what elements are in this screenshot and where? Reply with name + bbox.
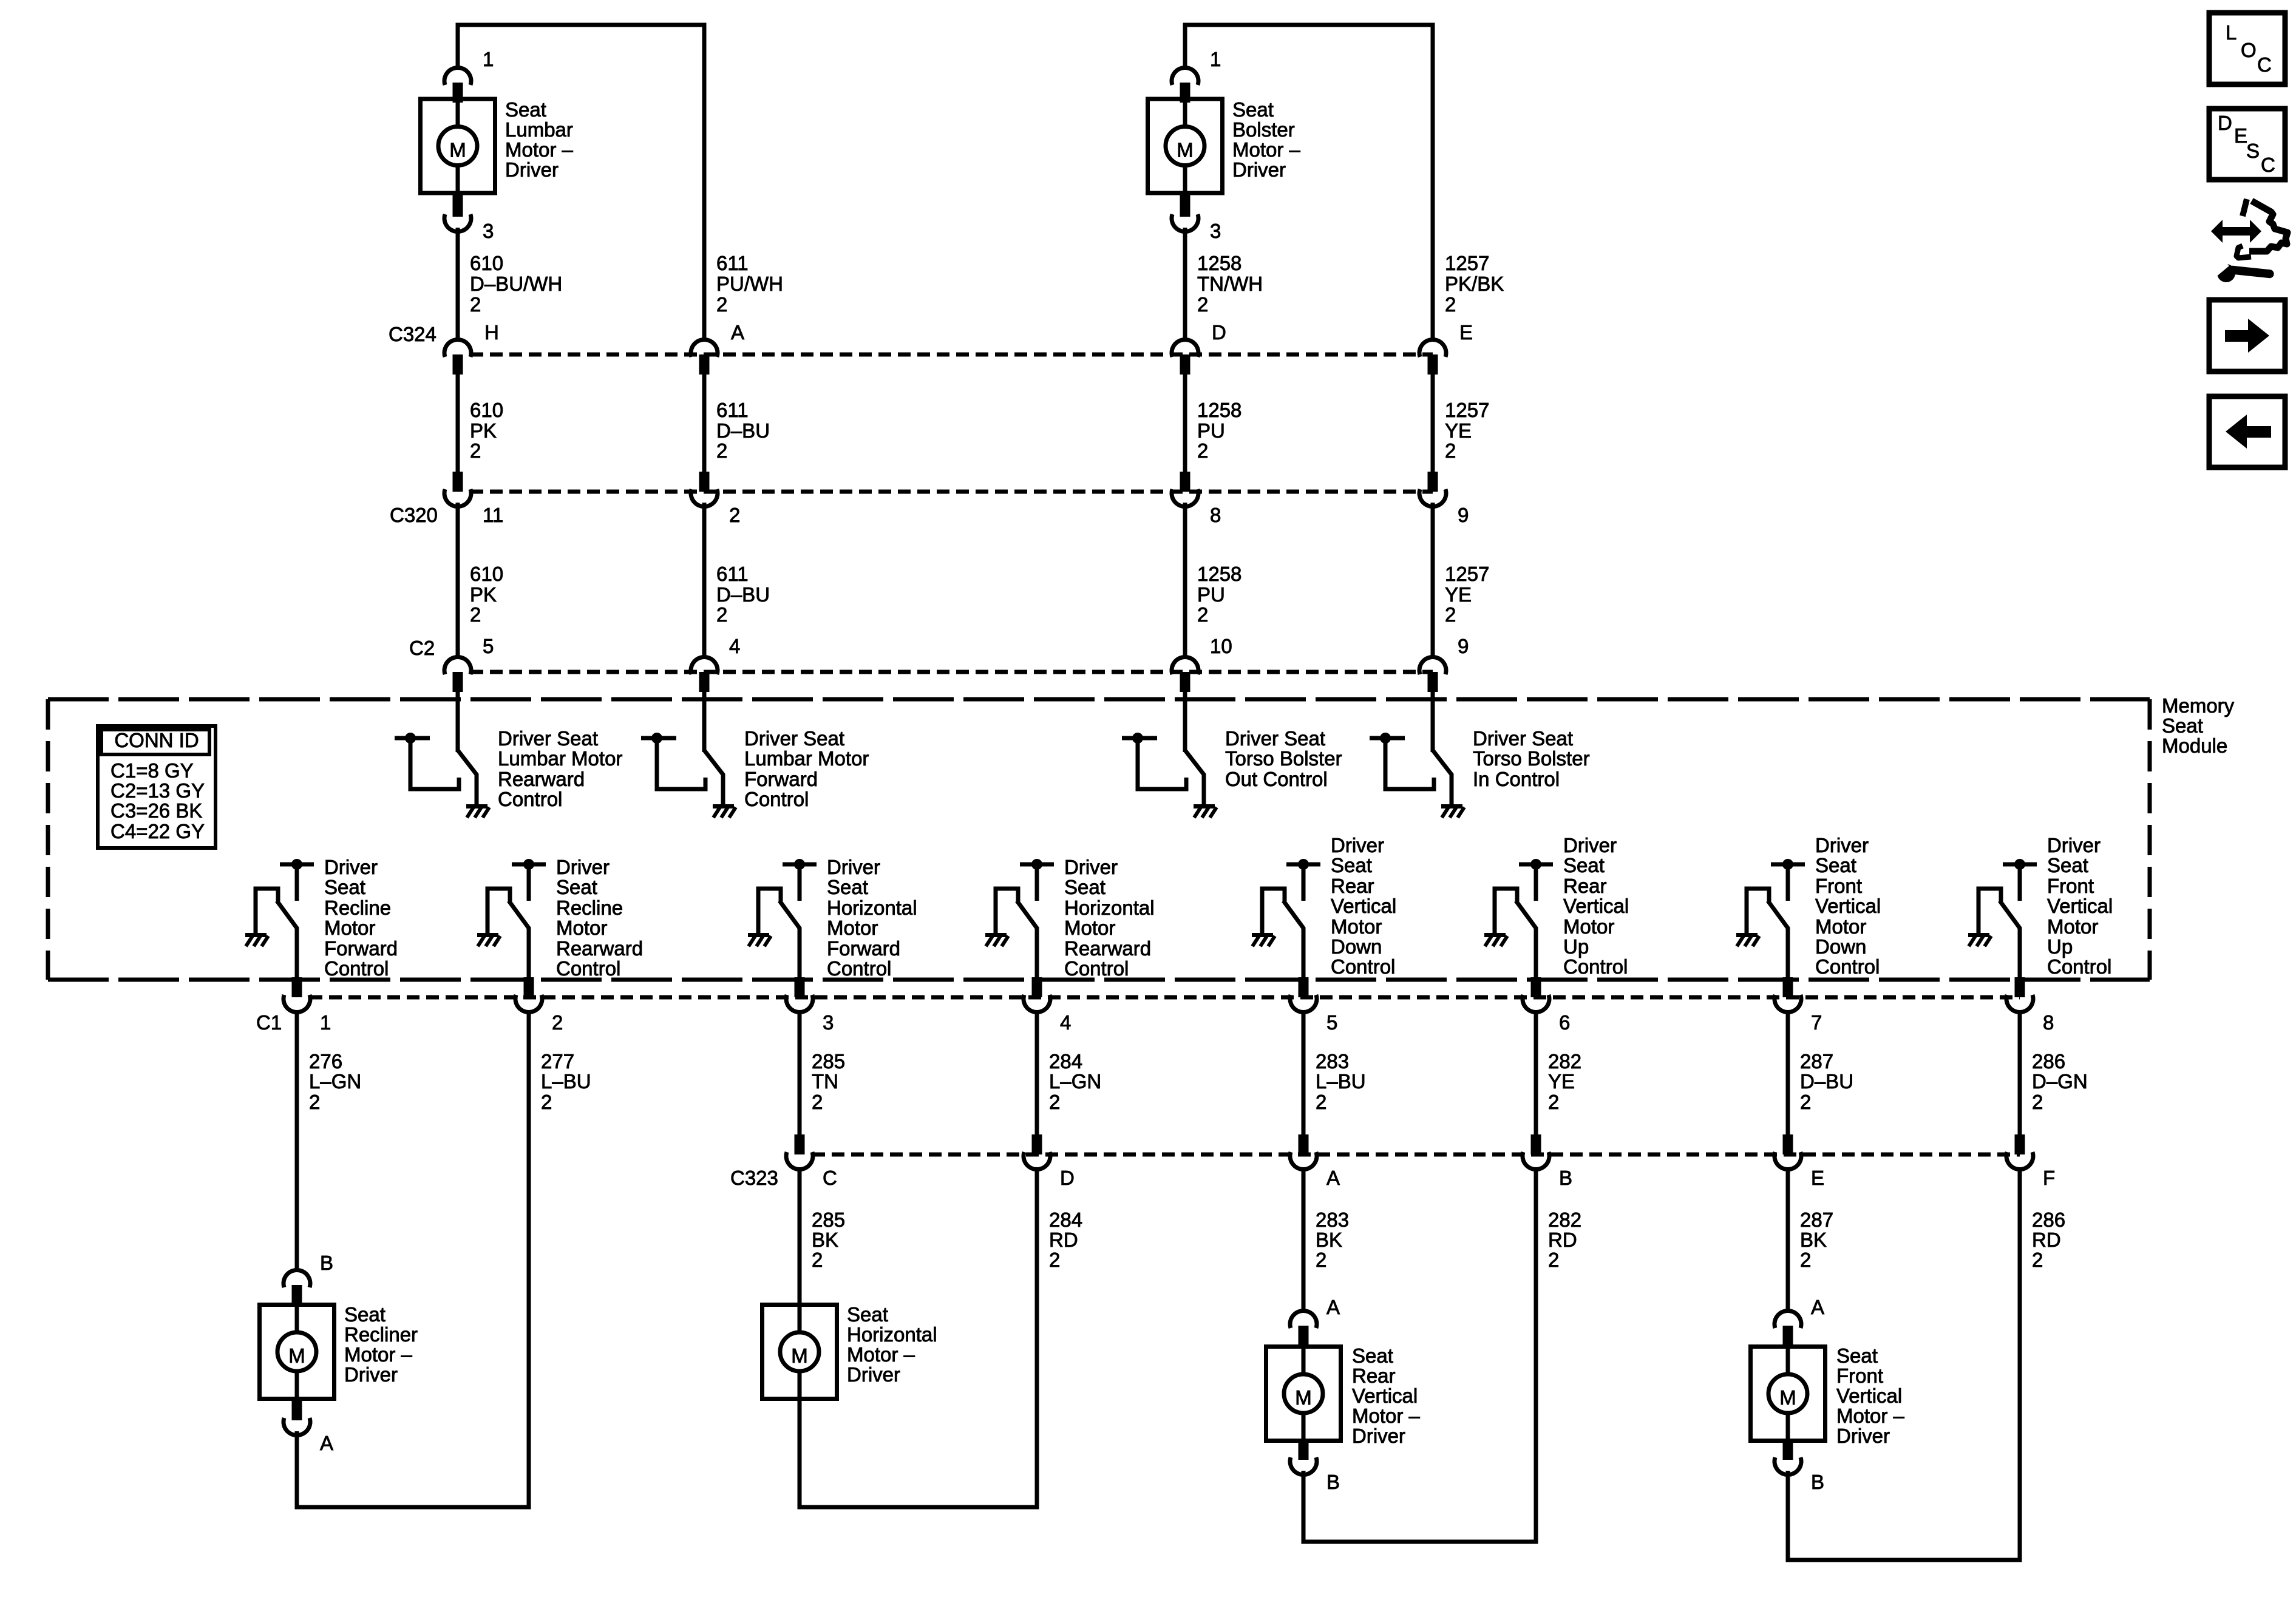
motor Seat Lumbar Motor - Driver	[421, 99, 495, 193]
svg-text:B: B	[1326, 1471, 1340, 1493]
svg-text:Front: Front	[2047, 875, 2094, 897]
svg-text:Control: Control	[744, 788, 809, 810]
wire circuit 611 D-BU (C324 to C320)	[702, 375, 707, 472]
svg-text:Motor: Motor	[827, 917, 878, 939]
label wire 1257 YE 2 (lower)	[1445, 563, 1489, 626]
wire top loop: Seat Bolster Motor to connector C324 pin E	[1185, 25, 1433, 341]
svg-text:Driver: Driver	[505, 158, 559, 181]
wire circuit 610 PK (C320 to C2)	[456, 503, 460, 659]
wire circuit to C323	[1035, 1011, 1039, 1134]
svg-text:5: 5	[1326, 1011, 1337, 1034]
svg-text:L–BU: L–BU	[541, 1070, 591, 1093]
svg-text:A: A	[1326, 1296, 1340, 1318]
wire circuit 285 BK (C323-C to horizontal motor)	[798, 1168, 802, 1305]
svg-text:C: C	[2257, 53, 2272, 76]
svg-text:Horizontal: Horizontal	[847, 1323, 937, 1346]
label Driver Seat Horizontal Motor Rearward Control	[1064, 856, 1155, 980]
wire circuit 610 PK (C324 to C320)	[456, 375, 460, 472]
svg-text:Control: Control	[827, 957, 891, 980]
switch blade of Driver Seat Torso Bolster Out Control	[1185, 750, 1204, 804]
svg-text:PK/BK: PK/BK	[1445, 273, 1504, 295]
svg-text:Up: Up	[2047, 935, 2073, 958]
svg-text:Driver: Driver	[847, 1363, 900, 1386]
svg-text:M: M	[791, 1344, 808, 1367]
svg-text:10: 10	[1210, 635, 1232, 657]
svg-text:D: D	[1212, 321, 1226, 344]
svg-text:Forward: Forward	[744, 768, 818, 790]
wire circuit 284 RD (C323-D down to loop)	[1035, 1168, 1039, 1505]
svg-text:Down: Down	[1815, 935, 1866, 958]
connector C323 pin B (pin stub above, female arc below)	[1523, 1134, 1549, 1170]
backward arrow navigation box icon	[2209, 396, 2285, 467]
adjust/repair icon (glove with double arrow and wrench)	[2211, 199, 2288, 282]
wire circuit 282 RD (C323-B down to loop)	[1534, 1168, 1538, 1540]
svg-text:Recline: Recline	[324, 897, 391, 919]
wire circuit 1257 YE (C324 to C320)	[1431, 375, 1435, 472]
svg-text:O: O	[2241, 39, 2257, 61]
svg-text:7: 7	[1811, 1011, 1822, 1034]
svg-text:Seat: Seat	[1331, 854, 1372, 876]
svg-text:611: 611	[716, 563, 749, 585]
switch contact (B+ side) of Driver Seat Lumbar Motor Forward Control	[641, 733, 705, 789]
svg-text:Seat: Seat	[505, 98, 546, 121]
switch contact (B+ side) of Driver Seat Horizontal Motor Forward Control	[783, 859, 817, 901]
svg-text:1257: 1257	[1445, 399, 1489, 421]
svg-text:Lumbar Motor: Lumbar Motor	[498, 747, 622, 770]
svg-text:Front: Front	[1815, 875, 1862, 897]
svg-text:2: 2	[1800, 1091, 1811, 1113]
svg-text:E: E	[2234, 124, 2247, 147]
svg-text:1: 1	[1210, 48, 1221, 70]
svg-text:Vertical: Vertical	[1352, 1385, 1418, 1407]
ground of Driver Seat Recline Motor Forward Control	[245, 933, 268, 946]
switch contact (B+ side) of Driver Seat Lumbar Motor Rearward Control	[395, 733, 459, 789]
svg-text:2: 2	[309, 1091, 320, 1113]
wire circuit to C323	[2018, 1011, 2022, 1134]
connector C320 pin 2 (pin stub above, female arc below)	[691, 472, 718, 507]
svg-text:A: A	[320, 1432, 333, 1454]
svg-text:Motor –: Motor –	[847, 1343, 915, 1366]
svg-text:M: M	[449, 139, 466, 161]
switch contact (B+ side) of Driver Seat Front Vertical Motor Up Control	[2003, 859, 2037, 901]
svg-text:A: A	[1326, 1167, 1340, 1189]
label wire 1257 YE 2	[1445, 399, 1489, 462]
svg-text:4: 4	[729, 635, 740, 657]
label wire 1258 PU 2 (lower)	[1197, 563, 1241, 626]
wire loop: recliner motor pin A to C1 pin 2 wire	[297, 1011, 529, 1507]
svg-text:Driver: Driver	[1331, 834, 1384, 856]
connector pin A of Seat Recliner Motor (pin stub above, female arc below)	[284, 1398, 310, 1436]
ground of Driver Seat Lumbar Motor Forward Control	[713, 804, 736, 818]
svg-text:Bolster: Bolster	[1232, 118, 1295, 141]
label wire 1258 TN/WH 2	[1197, 252, 1263, 316]
svg-text:282: 282	[1548, 1209, 1581, 1231]
svg-text:Lumbar: Lumbar	[505, 118, 573, 141]
svg-text:RD: RD	[1049, 1229, 1078, 1251]
label Driver Seat Torso Bolster In Control	[1473, 727, 1590, 790]
svg-text:C1=8 GY: C1=8 GY	[110, 759, 194, 782]
svg-text:Recliner: Recliner	[344, 1323, 418, 1346]
svg-text:Seat: Seat	[1064, 876, 1106, 898]
svg-text:E: E	[1459, 321, 1473, 344]
svg-text:PU: PU	[1197, 419, 1225, 442]
svg-text:B: B	[1811, 1471, 1824, 1493]
svg-text:C3=26 BK: C3=26 BK	[110, 799, 202, 822]
switch blade and ground contact of Driver Seat Front Vertical Motor Up Control	[1978, 889, 2001, 933]
svg-text:YE: YE	[1548, 1070, 1575, 1093]
svg-text:Seat: Seat	[827, 876, 868, 898]
svg-text:2: 2	[1197, 293, 1208, 316]
svg-text:282: 282	[1548, 1050, 1581, 1073]
svg-text:Control: Control	[2047, 955, 2111, 978]
svg-text:Motor –: Motor –	[505, 138, 574, 161]
svg-text:2: 2	[1316, 1249, 1326, 1271]
svg-text:Motor –: Motor –	[1836, 1405, 1905, 1427]
connector pin B of Seat Front Vertical Motor (pin stub above, female arc below)	[1775, 1440, 1801, 1475]
svg-text:L: L	[2226, 21, 2237, 44]
label Driver Seat Front Vertical Motor Up Control	[2047, 834, 2113, 978]
svg-text:1257: 1257	[1445, 563, 1489, 585]
connector C323 pin D (pin stub above, female arc below)	[1024, 1134, 1050, 1170]
svg-text:2: 2	[2032, 1091, 2043, 1113]
svg-text:A: A	[731, 321, 744, 344]
svg-text:D–BU: D–BU	[716, 419, 770, 442]
svg-text:2: 2	[1548, 1091, 1559, 1113]
svg-text:2: 2	[812, 1091, 823, 1113]
svg-text:Driver: Driver	[556, 856, 610, 878]
connector C2 pin 4 (female arc above, pin stub below)	[691, 657, 718, 692]
svg-text:9: 9	[1458, 504, 1469, 526]
svg-text:D–BU/WH: D–BU/WH	[470, 273, 562, 295]
svg-text:2: 2	[470, 439, 481, 462]
ground of Driver Seat Horizontal Motor Forward Control	[748, 933, 771, 946]
svg-text:Seat: Seat	[344, 1303, 385, 1326]
wire module internal (C2 pin to driver switch)	[456, 692, 460, 752]
module connector C2 dashed interconnect line	[470, 670, 1433, 674]
connector C323 pin C (pin stub above, female arc below)	[786, 1134, 813, 1170]
Memory Seat Module dashed outline bottom border	[48, 978, 2150, 982]
connector C324 pin E (female arc above, pin stub below)	[1419, 339, 1446, 375]
wire circuit to C323	[798, 1011, 802, 1134]
wire circuit 287 BK (C323-E to front vertical motor A)	[1786, 1168, 1790, 1312]
svg-text:Seat: Seat	[2162, 714, 2203, 737]
svg-text:Driver: Driver	[1563, 834, 1617, 856]
svg-text:PU: PU	[1197, 583, 1225, 606]
svg-text:2: 2	[716, 293, 727, 316]
wire circuit 1258 PU (C324 to C320)	[1183, 375, 1187, 472]
svg-text:3: 3	[483, 220, 494, 242]
svg-text:3: 3	[823, 1011, 834, 1034]
svg-text:8: 8	[1210, 504, 1221, 526]
in-line connector C324 dashed interconnect line	[470, 353, 1433, 357]
svg-text:Motor: Motor	[556, 917, 607, 939]
svg-text:BK: BK	[1800, 1229, 1827, 1251]
svg-text:M: M	[1779, 1386, 1796, 1409]
svg-text:611: 611	[716, 399, 749, 421]
svg-text:Driver Seat: Driver Seat	[1225, 727, 1325, 750]
svg-text:Rearward: Rearward	[556, 937, 643, 960]
motor Seat Bolster Motor - Driver	[1148, 99, 1223, 193]
connector pin 1 of Seat Bolster Motor (female arc above, pin stub below)	[1172, 67, 1198, 103]
connector pin B of Seat Rear Vertical Motor (pin stub above, female arc below)	[1290, 1440, 1317, 1475]
label wire 284 RD 2	[1049, 1209, 1082, 1271]
svg-text:2: 2	[812, 1249, 823, 1271]
label Seat Recliner Motor - Driver	[344, 1303, 418, 1386]
svg-text:TN: TN	[812, 1070, 838, 1093]
connector C1 pin 7 (pin stub above, female arc below)	[1775, 977, 1801, 1012]
switch contact (B+ side) of Driver Seat Recline Motor Forward Control	[280, 859, 314, 901]
svg-text:Seat: Seat	[1836, 1344, 1878, 1367]
switch contact (B+ side) of Driver Seat Front Vertical Motor Down Control	[1771, 859, 1805, 901]
connector C323 pin F (pin stub above, female arc below)	[2006, 1134, 2033, 1170]
connector C1 pin 3 (pin stub above, female arc below)	[786, 977, 813, 1012]
svg-text:1: 1	[320, 1011, 331, 1034]
svg-text:1258: 1258	[1197, 252, 1241, 274]
svg-text:Seat: Seat	[2047, 854, 2088, 876]
connector C1 pin 8 (pin stub above, female arc below)	[2006, 977, 2033, 1012]
label Driver Seat Rear Vertical Motor Up Control	[1563, 834, 1629, 978]
svg-text:610: 610	[470, 252, 503, 274]
svg-text:Motor: Motor	[2047, 915, 2098, 938]
svg-text:277: 277	[541, 1050, 574, 1073]
switch contact (B+ side) of Driver Seat Horizontal Motor Rearward Control	[1020, 859, 1054, 901]
label Driver Seat Torso Bolster Out Control	[1225, 727, 1342, 790]
connector C324 pin A (female arc above, pin stub below)	[691, 339, 718, 375]
svg-text:2: 2	[541, 1091, 552, 1113]
svg-text:2: 2	[1049, 1249, 1060, 1271]
svg-text:2: 2	[729, 504, 740, 526]
connector C1 pin 1 (pin stub above, female arc below)	[284, 977, 310, 1012]
connector C323 pin E (pin stub above, female arc below)	[1775, 1134, 1801, 1170]
label Memory Seat Module	[2162, 694, 2235, 757]
svg-text:YE: YE	[1445, 583, 1472, 606]
switch blade and ground contact of Driver Seat Horizontal Motor Rearward Control	[996, 889, 1018, 933]
motor Seat Front Vertical Motor - Driver	[1751, 1347, 1826, 1441]
connector C320 pin 9 (pin stub above, female arc below)	[1419, 472, 1446, 507]
ground of Driver Seat Rear Vertical Motor Down Control	[1252, 933, 1275, 946]
svg-text:2: 2	[470, 293, 481, 316]
ground of Driver Seat Lumbar Motor Rearward Control	[466, 804, 489, 818]
svg-text:Seat: Seat	[1352, 1344, 1393, 1367]
svg-text:M: M	[1177, 139, 1194, 161]
switch blade and ground contact of Driver Seat Rear Vertical Motor Down Control	[1262, 889, 1285, 933]
svg-text:Vertical: Vertical	[2047, 895, 2113, 917]
label wire 282 RD 2	[1548, 1209, 1581, 1271]
label wire 285 BK 2	[812, 1209, 845, 1271]
label Seat Horizontal Motor - Driver	[847, 1303, 937, 1386]
svg-text:Seat: Seat	[1815, 854, 1856, 876]
svg-text:C: C	[2261, 154, 2275, 176]
svg-text:C2=13 GY: C2=13 GY	[110, 779, 205, 802]
wire circuit 283 BK (C323-A to rear vertical motor A)	[1302, 1168, 1306, 1312]
svg-text:C1: C1	[256, 1011, 282, 1034]
svg-text:2: 2	[716, 603, 727, 626]
label Driver Seat Rear Vertical Motor Down Control	[1331, 834, 1396, 978]
svg-text:Rear: Rear	[1563, 875, 1607, 897]
ground of Driver Seat Horizontal Motor Rearward Control	[985, 933, 1008, 946]
svg-text:Torso Bolster: Torso Bolster	[1473, 747, 1590, 770]
label Driver Seat Horizontal Motor Forward Control	[827, 856, 917, 980]
svg-text:Seat: Seat	[847, 1303, 888, 1326]
svg-text:2: 2	[1445, 439, 1456, 462]
Memory Seat Module dashed outline left border	[46, 699, 50, 980]
svg-text:285: 285	[812, 1050, 845, 1073]
switch contact (B+ side) of Driver Seat Torso Bolster In Control	[1370, 733, 1434, 789]
svg-text:2: 2	[1445, 293, 1456, 316]
svg-text:C2: C2	[409, 637, 435, 659]
wire circuit 276 (C1-1 to recliner motor B)	[295, 1011, 299, 1272]
svg-text:Driver: Driver	[344, 1363, 398, 1386]
connector C2 pin 10 (female arc above, pin stub below)	[1172, 657, 1198, 692]
svg-text:L–BU: L–BU	[1316, 1070, 1366, 1093]
svg-text:Driver: Driver	[1232, 158, 1286, 181]
svg-text:Driver: Driver	[1064, 856, 1118, 878]
svg-text:Rearward: Rearward	[1064, 937, 1151, 960]
svg-text:Driver: Driver	[1352, 1425, 1405, 1447]
svg-text:1257: 1257	[1445, 252, 1489, 274]
svg-text:L–GN: L–GN	[309, 1070, 361, 1093]
svg-text:C: C	[823, 1167, 837, 1189]
label wire 287 BK 2	[1800, 1209, 1833, 1271]
label wire 611 D-BU 2	[716, 399, 770, 462]
connector C1 pin 4 (pin stub above, female arc below)	[1024, 977, 1050, 1012]
svg-text:Motor: Motor	[1815, 915, 1866, 938]
switch blade and ground contact of Driver Seat Front Vertical Motor Down Control	[1747, 889, 1769, 933]
wire module internal (C2 pin to driver switch)	[1431, 692, 1435, 752]
svg-text:8: 8	[2043, 1011, 2054, 1034]
svg-text:283: 283	[1316, 1050, 1349, 1073]
svg-text:Motor: Motor	[1064, 917, 1115, 939]
svg-text:Control: Control	[1064, 957, 1129, 980]
ground of Driver Seat Rear Vertical Motor Up Control	[1484, 933, 1507, 946]
svg-text:1258: 1258	[1197, 399, 1241, 421]
svg-text:Down: Down	[1331, 935, 1382, 958]
svg-text:Out Control: Out Control	[1225, 768, 1328, 790]
svg-text:Recline: Recline	[556, 897, 623, 919]
svg-text:RD: RD	[2032, 1229, 2061, 1251]
svg-text:Driver: Driver	[2047, 834, 2101, 856]
motor Seat Horizontal Motor - Driver	[763, 1305, 837, 1399]
label wire 277 L&#8211;BU 2	[541, 1050, 591, 1113]
connector pin B of Seat Recliner Motor (female arc above, pin stub below)	[284, 1270, 310, 1305]
svg-text:C320: C320	[390, 504, 438, 526]
svg-text:B: B	[1559, 1167, 1572, 1189]
svg-text:2: 2	[2032, 1249, 2043, 1271]
svg-text:D–GN: D–GN	[2032, 1070, 2088, 1093]
svg-text:Up: Up	[1563, 935, 1589, 958]
DESC navigation box icon	[2209, 109, 2285, 180]
svg-text:B: B	[320, 1252, 333, 1274]
svg-text:PK: PK	[470, 583, 497, 606]
label wire 1258 PU 2	[1197, 399, 1241, 462]
svg-text:C324: C324	[389, 323, 436, 345]
svg-text:Driver Seat: Driver Seat	[498, 727, 598, 750]
svg-text:Control: Control	[1331, 955, 1395, 978]
wire circuit 611 D-BU (C320 to C2)	[702, 503, 707, 659]
svg-text:2: 2	[716, 439, 727, 462]
svg-text:M: M	[1295, 1386, 1312, 1409]
label Driver Seat Recline Motor Rearward Control	[556, 856, 643, 980]
svg-text:S: S	[2246, 140, 2260, 162]
svg-text:610: 610	[470, 399, 503, 421]
label Driver Seat Recline Motor Forward Control	[324, 856, 398, 980]
svg-text:L–GN: L–GN	[1049, 1070, 1101, 1093]
svg-text:CONN ID: CONN ID	[114, 729, 199, 751]
svg-text:286: 286	[2032, 1050, 2065, 1073]
label wire 276 L&#8211;GN 2	[309, 1050, 361, 1113]
label Driver Seat Lumbar Motor Rearward Control	[498, 727, 622, 810]
svg-text:286: 286	[2032, 1209, 2065, 1231]
svg-text:Control: Control	[324, 957, 389, 980]
module connector C1 dashed interconnect line	[310, 995, 2020, 1000]
svg-text:H: H	[484, 321, 499, 344]
svg-text:1: 1	[483, 48, 494, 70]
svg-text:11: 11	[483, 504, 503, 526]
wire circuit 1258 TN/WH (pin3 to C324-D)	[1183, 228, 1187, 341]
svg-text:Driver: Driver	[324, 856, 378, 878]
ground of Driver Seat Recline Motor Rearward Control	[477, 933, 500, 946]
switch contact (B+ side) of Driver Seat Recline Motor Rearward Control	[512, 859, 546, 901]
svg-text:6: 6	[1559, 1011, 1570, 1034]
label Driver Seat Lumbar Motor Forward Control	[744, 727, 869, 810]
connector C324 pin D (female arc above, pin stub below)	[1172, 339, 1198, 375]
in-line connector C320 dashed interconnect line	[470, 490, 1433, 494]
switch contact (B+ side) of Driver Seat Torso Bolster Out Control	[1122, 733, 1186, 789]
switch blade of Driver Seat Lumbar Motor Forward Control	[704, 750, 723, 804]
wire circuit 610 D-BU/WH (pin3 to C324-H)	[456, 228, 460, 341]
svg-text:Motor –: Motor –	[1232, 138, 1301, 161]
label wire 284 L&#8211;GN 2	[1049, 1050, 1101, 1113]
svg-text:2: 2	[1197, 603, 1208, 626]
svg-text:284: 284	[1049, 1209, 1082, 1231]
svg-text:D–BU: D–BU	[1800, 1070, 1853, 1093]
svg-text:2: 2	[1316, 1091, 1326, 1113]
svg-text:BK: BK	[812, 1229, 838, 1251]
wire top loop: Seat Lumbar Motor to connector C324 pin A	[458, 25, 704, 341]
svg-text:Torso Bolster: Torso Bolster	[1225, 747, 1342, 770]
svg-text:Motor –: Motor –	[344, 1343, 413, 1366]
svg-text:Vertical: Vertical	[1815, 895, 1881, 917]
svg-text:Vertical: Vertical	[1563, 895, 1629, 917]
label wire 611 D-BU 2 (lower)	[716, 563, 770, 626]
svg-text:2: 2	[1800, 1249, 1811, 1271]
label wire 286 D&#8211;GN 2	[2032, 1050, 2088, 1113]
svg-text:C323: C323	[730, 1167, 778, 1189]
connector pin A of Seat Front Vertical Motor (female arc above, pin stub below)	[1775, 1310, 1801, 1346]
switch blade and ground contact of Driver Seat Recline Motor Forward Control	[256, 889, 278, 933]
wire circuit 277 (C1-2 down to loop)	[527, 1011, 531, 1505]
svg-text:PU/WH: PU/WH	[716, 273, 783, 295]
label wire 611 PU/WH 2	[716, 252, 783, 316]
svg-text:Seat: Seat	[556, 876, 597, 898]
wire loop: rear vertical motor pin B to C323 pin B wire	[1303, 1168, 1536, 1542]
svg-text:9: 9	[1458, 635, 1469, 657]
svg-text:2: 2	[552, 1011, 563, 1034]
svg-text:Motor: Motor	[1563, 915, 1614, 938]
svg-text:Control: Control	[556, 957, 620, 980]
svg-text:2: 2	[1049, 1091, 1060, 1113]
svg-text:E: E	[1811, 1167, 1824, 1189]
svg-text:2: 2	[470, 603, 481, 626]
svg-text:1258: 1258	[1197, 563, 1241, 585]
connector C320 pin 8 (pin stub above, female arc below)	[1172, 472, 1198, 507]
connector C324 pin H (female arc above, pin stub below)	[444, 339, 471, 375]
switch blade of Driver Seat Torso Bolster In Control	[1433, 750, 1452, 804]
svg-text:2: 2	[1197, 439, 1208, 462]
label wire 286 RD 2	[2032, 1209, 2065, 1271]
svg-text:F: F	[2043, 1167, 2055, 1189]
label wire 610 D-BU/WH 2	[470, 252, 562, 316]
